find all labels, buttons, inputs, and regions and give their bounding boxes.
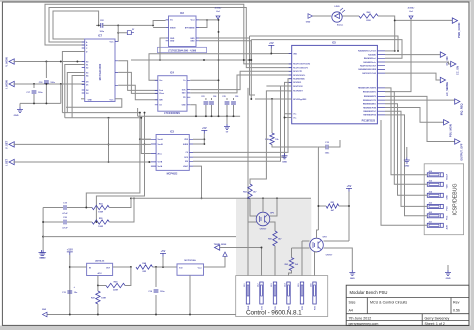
- capacitor C20: [43, 221, 63, 223]
- svg-text:PIC18F2523: PIC18F2523: [362, 120, 376, 123]
- svg-text:CNY17: CNY17: [260, 229, 268, 231]
- wire bus to IC3 AVss route: [141, 118, 151, 154]
- svg-text:IC2: IC2: [180, 12, 185, 15]
- IC2 pin stubs: [166, 20, 199, 41]
- wire RB2 to port: [385, 96, 455, 141]
- svg-text:J4.5: J4.5: [429, 180, 433, 183]
- resistor R54: [92, 205, 109, 209]
- svg-text:4.7uF: 4.7uF: [62, 212, 68, 215]
- wire PGD staircase: [385, 88, 427, 175]
- wire IC7 to IC4 pin: [118, 61, 158, 91]
- svg-text:J4.4: J4.4: [429, 191, 433, 194]
- svg-text:UA78L05: UA78L05: [95, 260, 105, 263]
- OP1 pin wires: [248, 221, 257, 223]
- IC IC2: [169, 16, 197, 47]
- svg-text:GND: GND: [190, 38, 195, 40]
- wire IC2 gnd right: [199, 38, 250, 60]
- wire IC3 SDI to PIC: [193, 86, 292, 161]
- svg-text:LTC2400CMS: LTC2400CMS: [164, 112, 180, 115]
- wire IC2 sense loop: [199, 20, 207, 28]
- ground GND (filters): [40, 250, 46, 256]
- svg-text:0.5b: 0.5b: [453, 309, 460, 313]
- wire R51 left: [318, 205, 326, 207]
- svg-text:100R: 100R: [101, 298, 106, 300]
- svg-text:IC7: IC7: [98, 34, 103, 38]
- svg-text:J2.6: J2.6: [311, 284, 313, 288]
- svg-text:+5V: +5V: [202, 126, 207, 130]
- svg-text:PWR_GOOD: PWR_GOOD: [457, 22, 461, 38]
- optocoupler OP2: [310, 238, 324, 252]
- svg-text:RC2/CCP1: RC2/CCP1: [293, 71, 302, 73]
- svg-text:RA3/AN3/Vref+: RA3/AN3/Vref+: [363, 61, 376, 64]
- svg-text:RA2/AN2/Vref-: RA2/AN2/Vref-: [364, 57, 377, 60]
- wire V_MON to IC7: [14, 61, 85, 63]
- capacitor C19: [43, 207, 63, 209]
- wire IC7 S4 feed: [72, 76, 85, 118]
- svg-text:LDAC: LDAC: [183, 165, 189, 168]
- svg-text:Vss: Vss: [293, 117, 296, 119]
- wire RB3 to port: [385, 99, 455, 101]
- wire IC7 bottom bus 2: [65, 117, 142, 119]
- svg-text:RC7/RX/DT: RC7/RX/DT: [293, 91, 303, 93]
- wire crossing over PIC 2: [251, 40, 402, 59]
- wire crossing over PIC 1: [250, 36, 399, 51]
- resistor R55: [92, 220, 109, 224]
- svg-text:Fswi: Fswi: [159, 90, 163, 92]
- IC3 pin stubs: [151, 139, 193, 166]
- wire IC3 SCK to PIC: [193, 82, 292, 157]
- svg-text:PGC: PGC: [447, 215, 449, 220]
- wire I_MON to IC7: [14, 83, 85, 85]
- svg-text:AUX: AUX: [446, 225, 449, 230]
- svg-text:Vref: Vref: [409, 11, 413, 13]
- svg-text:Rev: Rev: [453, 301, 460, 305]
- svg-text:+5V: +5V: [347, 184, 352, 188]
- port GND (rail): [43, 312, 48, 317]
- wire bus down to V_SET: [144, 113, 146, 145]
- svg-text:AC_SENSE: AC_SENSE: [445, 82, 449, 96]
- svg-text:MC74HC4060: MC74HC4060: [98, 63, 102, 80]
- svg-text:D3: D3: [86, 93, 88, 95]
- wire I_SET to IC3 VrefB: [14, 161, 151, 163]
- wire IC4 SCK to PIC: [190, 71, 291, 89]
- svg-text:Vout: Vout: [190, 19, 194, 22]
- port V_MON: [9, 59, 14, 64]
- capacitor C25: [226, 98, 228, 100]
- svg-text:RB5/KBI1/PGM: RB5/KBI1/PGM: [363, 107, 376, 109]
- wire IC2 gnd right 2: [199, 41, 251, 60]
- svg-text:Vdd: Vdd: [179, 268, 182, 270]
- wire RX vertical: [250, 91, 292, 184]
- connector pin J2.2: [260, 282, 263, 304]
- svg-text:4.096v: 4.096v: [408, 7, 415, 10]
- capacitor C23: [205, 98, 207, 100]
- svg-text:CNY17: CNY17: [326, 255, 334, 257]
- svg-text:GND: GND: [170, 41, 175, 43]
- wire loop to C22 node: [53, 11, 99, 39]
- wire C15 right: [328, 140, 340, 147]
- svg-text:IC4: IC4: [170, 72, 175, 75]
- connector pin J4.4: [427, 193, 443, 197]
- connector pin J4.1: [427, 223, 443, 227]
- wire IC7 to IC4 pin3: [118, 85, 158, 100]
- svg-text:OUTPUT_OFF: OUTPUT_OFF: [460, 143, 464, 161]
- svg-text:ICSP/DEBUG: ICSP/DEBUG: [453, 184, 459, 216]
- wire R42 to port: [378, 16, 452, 20]
- connector pin J4.5: [427, 182, 443, 186]
- wire IC7 bottom bus 1: [62, 112, 139, 114]
- svg-text:V_MON: V_MON: [5, 57, 9, 66]
- svg-text:V_SET: V_SET: [5, 140, 9, 149]
- svg-text:C23: C23: [201, 96, 204, 98]
- svg-text:IC3: IC3: [170, 131, 175, 134]
- wire reg in: [82, 266, 87, 268]
- optocoupler OP1: [256, 212, 270, 226]
- wire RA1 to port CV_ON: [385, 54, 440, 56]
- wire analog rail y116: [138, 115, 241, 117]
- svg-text:ZSset: ZSset: [159, 92, 164, 95]
- title block: [346, 285, 469, 325]
- wire R61 to J2.4: [289, 271, 292, 282]
- wire long rail y198: [131, 197, 311, 199]
- svg-text:GND: GND: [190, 41, 195, 43]
- power flag +5V (C22 node): [118, 25, 127, 32]
- svg-text:GND: GND: [404, 166, 409, 168]
- wire J2.1 up: [247, 222, 249, 282]
- wire IC7 VCC bottom loop: [66, 99, 122, 108]
- svg-text:MCLR/Vpp/RE3: MCLR/Vpp/RE3: [293, 99, 306, 101]
- capacitor C15: [326, 145, 328, 150]
- svg-text:RA0/AN0/Vref+/CVref: RA0/AN0/Vref+/CVref: [358, 50, 376, 53]
- wire IC3 SHDN +5V: [193, 143, 204, 145]
- wire IC7 S3 feed: [67, 73, 84, 113]
- svg-text:100n: 100n: [100, 31, 105, 33]
- svg-text:Vcc: Vcc: [159, 80, 162, 82]
- svg-text:RB1/AN10/INT1: RB1/AN10/INT1: [363, 90, 376, 93]
- wire long gnd y236: [43, 236, 236, 238]
- wire IC3 VDD +5V: [193, 138, 204, 140]
- svg-text:SHDN: SHDN: [183, 144, 189, 146]
- svg-text:Vref: Vref: [216, 11, 220, 13]
- ground GND (OP2): [349, 270, 355, 276]
- resistor R51: [326, 204, 339, 208]
- connector pin J4.2: [427, 214, 443, 218]
- svg-text:RA7/OSC1/CLKI: RA7/OSC1/CLKI: [362, 72, 376, 75]
- wire bundle extra 1: [250, 36, 256, 95]
- wire IC4 SDO to PIC: [190, 75, 291, 93]
- svg-text:+5V: +5V: [161, 249, 166, 253]
- capacitor C24: [211, 98, 213, 100]
- svg-text:RB6/KBI2/PGC: RB6/KBI2/PGC: [363, 111, 376, 113]
- svg-text:J2.1: J2.1: [244, 284, 246, 288]
- wire R51 right to +5V: [339, 205, 349, 207]
- svg-text:TEMP_MON: TEMP_MON: [214, 244, 227, 246]
- resistor R42: [343, 15, 360, 17]
- IC7 right pins: [115, 42, 118, 86]
- svg-text:GND: GND: [39, 258, 44, 260]
- wire RA0 stub: [385, 50, 395, 52]
- svg-text:Gerry Sweeney: Gerry Sweeney: [425, 317, 450, 321]
- wire C15 left: [317, 146, 326, 148]
- svg-text:ACU: ACU: [97, 272, 102, 275]
- wire IC3 LDAC down: [193, 166, 202, 198]
- wire reg out: [113, 266, 131, 268]
- svg-text:GND: GND: [350, 278, 355, 280]
- resistor R50: [273, 231, 277, 246]
- svg-text:GND: GND: [88, 100, 93, 102]
- svg-text:SHDN: SHDN: [170, 27, 176, 29]
- wire RB5 to port: [385, 108, 444, 123]
- wire reg adj: [98, 276, 106, 286]
- wire R54 out: [109, 198, 131, 207]
- svg-text:22R: 22R: [142, 271, 146, 273]
- svg-text:RC3/SCK/SCL: RC3/SCK/SCL: [293, 75, 306, 77]
- wire IC7 VCC up: [117, 33, 119, 42]
- svg-text:S0: S0: [86, 61, 88, 63]
- svg-text:SDO: SDO: [182, 93, 186, 95]
- port I_MON: [9, 81, 14, 86]
- svg-text:GND: GND: [447, 195, 449, 200]
- svg-text:J2.3: J2.3: [271, 284, 273, 288]
- svg-text:Control - 9600.N.8.1: Control - 9600.N.8.1: [246, 310, 302, 317]
- svg-text:J4.1: J4.1: [429, 221, 433, 224]
- wire vertical x318: [317, 147, 319, 230]
- svg-text:DTR: DTR: [302, 305, 304, 310]
- svg-text:RC0/T1OSO/T13CKI: RC0/T1OSO/T13CKI: [293, 64, 310, 66]
- IC2 value label: [158, 47, 207, 52]
- svg-text:I_MON: I_MON: [5, 80, 9, 89]
- svg-text:4.7uF: 4.7uF: [62, 226, 68, 229]
- svg-text:VCC: VCC: [110, 42, 115, 44]
- ground AGND below rail: [226, 116, 228, 124]
- svg-text:D0: D0: [86, 81, 88, 83]
- svg-text:GND: GND: [446, 278, 451, 280]
- IC5 pin stubs: [289, 51, 385, 118]
- wire bottom rail: [47, 314, 236, 316]
- wire IC7 bottom to V_SET/I_SET junctions: [108, 118, 110, 163]
- svg-text:gerrysweeney.com: gerrysweeney.com: [349, 322, 379, 326]
- connector pin J2.6: [313, 282, 316, 304]
- resistor R61: [291, 248, 293, 258]
- svg-text:RC5/SDO: RC5/SDO: [293, 82, 302, 84]
- wire bus to IC3 VoutA route: [140, 113, 151, 140]
- wire rail left turn-up: [137, 108, 139, 116]
- svg-text:RC4/SDI/SDA: RC4/SDI/SDA: [293, 78, 305, 81]
- capacitor C18: [45, 62, 47, 79]
- wire IC4 GND to rail: [190, 105, 196, 116]
- svg-text:PSU_MON: PSU_MON: [448, 124, 452, 137]
- port TEMP out: [223, 252, 227, 256]
- svg-text:J4.3: J4.3: [429, 202, 433, 205]
- svg-text:VoutA: VoutA: [158, 138, 164, 141]
- port CV_ON: [440, 52, 445, 57]
- connector pin J2.5: [300, 282, 303, 304]
- svg-text:MCP4822: MCP4822: [167, 173, 178, 176]
- IC IC4: [158, 76, 187, 112]
- wire RC1 loop to IC7 pin B: [49, 8, 292, 68]
- svg-text:C24: C24: [213, 95, 216, 98]
- svg-text:J2.4: J2.4: [284, 284, 287, 288]
- port V_SET: [9, 142, 14, 147]
- capacitor C26: [233, 98, 235, 100]
- ICSP section frame: [424, 164, 463, 235]
- IC7 left pins: [82, 42, 85, 93]
- svg-text:J4.6: J4.6: [429, 170, 433, 173]
- svg-text:LT1763CS8#4.096 - 4.096: LT1763CS8#4.096 - 4.096: [168, 49, 197, 52]
- svg-text:100n: 100n: [50, 82, 55, 84]
- wire R38 to C15: [272, 145, 317, 148]
- wire sensor gnd: [189, 275, 191, 314]
- IC IC3: [156, 135, 189, 171]
- port PSU_MON: [444, 120, 449, 125]
- svg-text:PGD: PGD: [447, 206, 449, 211]
- svg-text:GND: GND: [306, 22, 311, 24]
- wire Vref to AN input: [385, 19, 411, 92]
- IC4 pin stubs: [155, 80, 191, 105]
- resistor R52: [248, 184, 252, 199]
- wire IC7 GND bottom stub: [81, 98, 85, 100]
- port PWR_GOOD: [452, 18, 457, 23]
- connector pin J2.3: [273, 282, 276, 304]
- svg-text:Vss: Vss: [293, 114, 296, 116]
- svg-text:Sheet: 1 of 2: Sheet: 1 of 2: [425, 322, 445, 326]
- svg-text:RA5/AN4/SS/HLVDIN: RA5/AN4/SS/HLVDIN: [358, 68, 376, 71]
- capacitor C16: [155, 267, 157, 287]
- svg-text:100R: 100R: [98, 226, 103, 228]
- svg-text:D1: D1: [86, 84, 88, 86]
- resistor R38 MCLR pullup: [271, 99, 273, 133]
- wire IC7 to IC4 pin2: [118, 72, 158, 93]
- svg-text:RB7/KBI3/PGD: RB7/KBI3/PGD: [363, 115, 376, 117]
- wire sensor out: [204, 256, 226, 267]
- connector pin J2.4: [287, 282, 290, 304]
- resistor R43/R48: [136, 265, 153, 269]
- ground GND (input filter): [19, 103, 21, 107]
- wire TEMP_MON: [215, 245, 220, 250]
- wire OSC to port AC_SENSE: [385, 73, 440, 80]
- svg-text:SWI: SWI: [159, 100, 163, 102]
- wire IC2 gnd left down: [160, 38, 166, 60]
- svg-text:VrefB: VrefB: [158, 162, 163, 164]
- svg-text:RC6/TX/CK: RC6/TX/CK: [293, 86, 303, 88]
- svg-text:S2: S2: [86, 67, 88, 69]
- connector pin J4.6: [427, 173, 443, 177]
- wire R52 to OP1: [250, 199, 257, 216]
- svg-text:LD20: LD20: [334, 6, 340, 8]
- wire C20 to V_SET line: [96, 144, 144, 222]
- wire IC7 S1 feed: [65, 65, 85, 118]
- wire IC7 pin D feed: [62, 52, 84, 113]
- wire Vss to gnd: [285, 114, 292, 154]
- connector pin J2.1: [246, 282, 249, 304]
- capacitor C13: [67, 291, 72, 293]
- svg-text:+5V: +5V: [269, 41, 274, 45]
- wire +5V to VDD: [271, 53, 291, 55]
- wire J2.2 up: [261, 248, 263, 282]
- svg-text:S3: S3: [86, 72, 88, 74]
- svg-text:VCC: VCC: [110, 100, 115, 102]
- port OUTPUT_OFF: [455, 139, 460, 144]
- wire IC3 CS to PIC: [193, 79, 292, 153]
- svg-text:J2.5: J2.5: [298, 284, 300, 288]
- svg-text:RA4/T0CKI/C1OUT: RA4/T0CKI/C1OUT: [360, 65, 377, 68]
- wire MCLR: [255, 98, 292, 100]
- wire IC3 VoutA to C19 filter: [140, 138, 151, 140]
- svg-text:MCP9700A: MCP9700A: [184, 259, 196, 262]
- wire R49 up: [125, 267, 131, 286]
- svg-text:220R: 220R: [113, 290, 118, 292]
- wire filter gnd left: [42, 208, 44, 251]
- svg-text:A4: A4: [349, 309, 353, 313]
- wire Vin feed: [153, 21, 166, 26]
- svg-text:J4.2: J4.2: [429, 211, 433, 214]
- svg-text:J2.2: J2.2: [258, 284, 260, 288]
- port GND (LED): [308, 14, 313, 19]
- wire to sensor: [153, 266, 178, 268]
- svg-text:MCU & Control Circuits: MCU & Control Circuits: [370, 301, 407, 305]
- IC IC7: [85, 39, 115, 102]
- svg-text:C26: C26: [235, 96, 238, 98]
- svg-text:+15V: +15V: [67, 248, 73, 252]
- resistor R47: [97, 286, 99, 292]
- ground GND (ICSP): [406, 147, 408, 158]
- svg-text:Status: Status: [337, 24, 344, 27]
- svg-text:RB0/AN12/FLT0/INT0: RB0/AN12/FLT0/INT0: [358, 87, 376, 90]
- wire V_SET to IC3 VoutB: [14, 143, 151, 145]
- svg-text:CC_ON: CC_ON: [456, 66, 460, 75]
- svg-text:I_SET: I_SET: [5, 158, 9, 166]
- wire LED branch to RA0: [394, 20, 396, 51]
- svg-text:IC5: IC5: [332, 41, 337, 44]
- wire ICSP gnd staircase: [385, 104, 427, 196]
- svg-text:100n: 100n: [160, 291, 165, 293]
- wire ICSP pgc2: [385, 115, 427, 216]
- wire analog gnd rail: [20, 102, 61, 104]
- capacitor C17: [33, 84, 35, 88]
- IC IC5 PIC18F2523: [292, 45, 378, 123]
- svg-text:7th June 2012: 7th June 2012: [349, 317, 372, 321]
- svg-text:AVss: AVss: [158, 152, 162, 155]
- wire ICSP pgd2: [385, 111, 427, 206]
- svg-text:GND: GND: [42, 309, 47, 311]
- wire PIC TX down to opto: [266, 85, 291, 87]
- ground GND (float): [39, 250, 45, 256]
- svg-text:RA1/AN1: RA1/AN1: [368, 53, 376, 56]
- port AC_SENSE: [440, 77, 445, 82]
- svg-text:VrefA: VrefA: [158, 165, 163, 168]
- svg-text:Size: Size: [349, 301, 356, 305]
- port I_SET: [9, 159, 14, 164]
- svg-text:IRQ_REQ: IRQ_REQ: [460, 104, 464, 116]
- svg-text:GND: GND: [14, 115, 19, 117]
- svg-text:VoutB: VoutB: [158, 143, 164, 146]
- wire gnd rail y60: [131, 59, 251, 61]
- wire ICSP aux: [381, 120, 427, 225]
- wire TX vertical: [247, 88, 249, 222]
- svg-text:D2: D2: [86, 90, 88, 92]
- wire +5V rail to IC4 Vcc: [149, 54, 271, 81]
- svg-text:BYP/SENSE: BYP/SENSE: [185, 27, 196, 29]
- connector pin J4.3: [427, 204, 443, 208]
- ground GND above title: [447, 265, 449, 270]
- port CC_ON: [451, 61, 456, 66]
- svg-text:100n: 100n: [38, 92, 43, 94]
- Control section box: [236, 276, 328, 317]
- capacitor C22: [96, 24, 101, 26]
- svg-text:C25: C25: [222, 96, 225, 98]
- wire RC0 loop to IC7 pin A: [45, 4, 292, 64]
- svg-text:SDI: SDI: [185, 161, 188, 163]
